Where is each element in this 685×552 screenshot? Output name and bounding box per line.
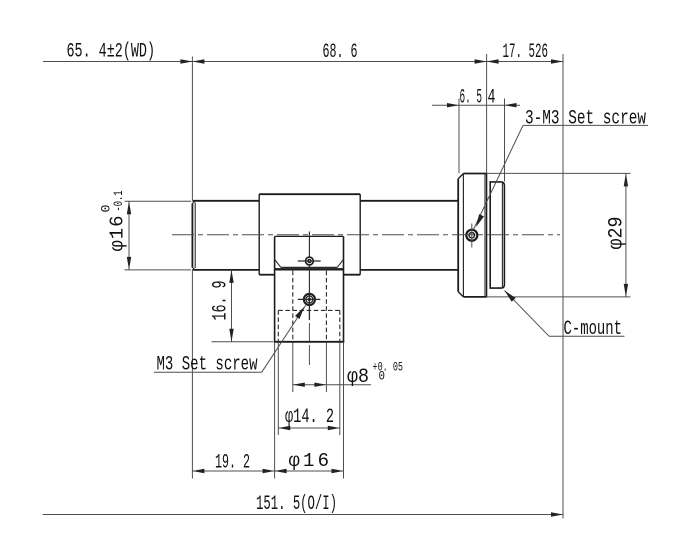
svg-text:68. 6: 68. 6	[323, 41, 358, 64]
svg-text:16. 9: 16. 9	[210, 281, 233, 321]
svg-text:17. 526: 17. 526	[503, 41, 549, 64]
svg-text:4: 4	[488, 87, 496, 110]
svg-text:φ8: φ8	[347, 366, 369, 389]
svg-text:+0. 05: +0. 05	[373, 360, 404, 375]
svg-text:C-mount: C-mount	[564, 318, 623, 341]
svg-text:φ16: φ16	[289, 450, 330, 472]
svg-text:3-M3 Set screw: 3-M3 Set screw	[525, 108, 646, 131]
svg-text:65. 4±2(WD): 65. 4±2(WD)	[67, 41, 156, 64]
svg-text:φ16: φ16	[107, 216, 129, 252]
svg-text:φ29: φ29	[606, 217, 629, 250]
svg-text:φ14. 2: φ14. 2	[285, 406, 334, 429]
svg-text:M3 Set screw: M3 Set screw	[157, 354, 258, 377]
svg-text:-0.1: -0.1	[111, 190, 126, 211]
svg-text:19. 2: 19. 2	[215, 452, 250, 475]
svg-text:151. 5(O/I): 151. 5(O/I)	[256, 493, 337, 516]
svg-text:6. 5: 6. 5	[460, 87, 483, 110]
svg-text:0: 0	[379, 369, 386, 384]
